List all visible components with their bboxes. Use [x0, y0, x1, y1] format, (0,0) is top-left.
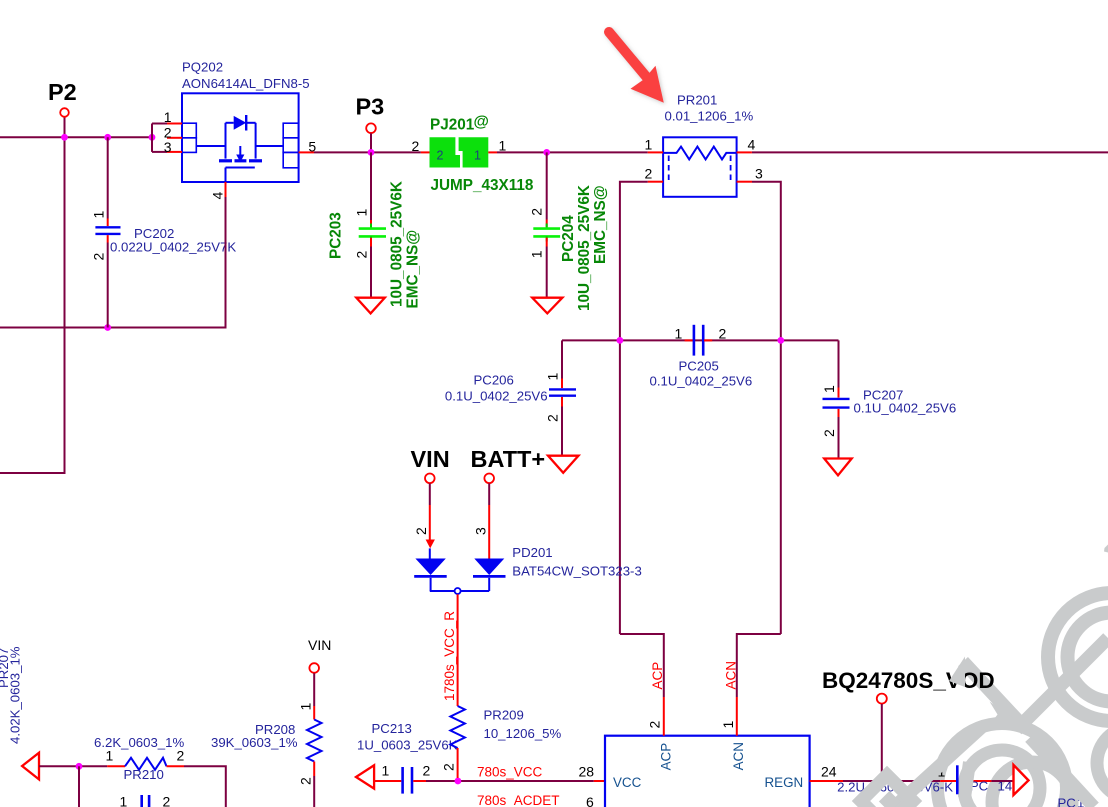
svg-text:1: 1	[164, 109, 172, 125]
wire main right horizontal net y=152.4	[314, 151, 421, 153]
svg-text:2: 2	[298, 777, 314, 785]
junction at (107.7,137.3)	[104, 134, 111, 141]
svg-text:780s_VCC: 780s_VCC	[477, 765, 543, 780]
capacitor PC204	[529, 152, 610, 311]
wm ring outer top	[1048, 593, 1108, 721]
connector P3	[356, 94, 385, 153]
svg-text:2: 2	[529, 208, 545, 216]
pin 3 stub	[737, 181, 752, 183]
watermark logo under-layer (gray)	[938, 545, 1108, 807]
pin 1 stub	[648, 151, 663, 153]
svg-text:3: 3	[473, 527, 489, 535]
svg-text:0.022U_0402_25V7K: 0.022U_0402_25V7K	[110, 240, 236, 255]
svg-text:P3: P3	[356, 94, 385, 120]
node BQ24780S_VOD	[822, 668, 995, 781]
pin 5 stub	[299, 151, 314, 153]
ground below PC207	[824, 459, 852, 476]
svg-text:EMC_NS@: EMC_NS@	[592, 185, 609, 264]
svg-text:2: 2	[645, 165, 653, 181]
ground below PC204	[532, 298, 562, 314]
node BATT+	[471, 446, 546, 483]
ground below PC203	[356, 298, 385, 314]
junction at (619.9,340.4)	[617, 337, 624, 344]
red arrowhead on VIN wire	[426, 540, 435, 549]
junction at (780.8,340.4)	[777, 337, 784, 344]
svg-text:PC206: PC206	[474, 373, 514, 388]
capacitor PC207	[821, 340, 956, 458]
pin 4 stub	[225, 182, 227, 197]
svg-text:2: 2	[413, 527, 429, 535]
svg-text:PJ201: PJ201	[430, 117, 475, 134]
junction at (152,137.3)	[149, 134, 156, 141]
svg-text:2: 2	[545, 414, 561, 422]
wm ring inner bottom	[964, 750, 1040, 807]
pin 4 stub	[737, 151, 752, 153]
off-page connector arrow left of PC213	[356, 765, 374, 788]
body diode	[234, 116, 247, 130]
svg-text:PC204: PC204	[560, 215, 577, 262]
off-page connector arrow bottom-left	[22, 753, 39, 780]
wire pin4 down	[225, 197, 227, 329]
svg-text:2: 2	[177, 748, 185, 764]
wm corner tick	[1104, 545, 1108, 553]
cathode bus	[430, 590, 489, 592]
mosfet internal wiring	[225, 123, 227, 159]
svg-text:ACP: ACP	[650, 662, 665, 690]
svg-text:1: 1	[474, 148, 481, 162]
wm diamond ring small	[861, 775, 913, 807]
svg-text:PC203: PC203	[328, 212, 345, 259]
svg-text:PC: PC	[1058, 796, 1077, 807]
wm extra arc bottom-right	[992, 762, 1072, 807]
wire bottom-left horizontal at y=473	[0, 472, 66, 474]
junction at (546.7,152.4)	[543, 149, 550, 156]
svg-text:REGN: REGN	[765, 775, 804, 790]
svg-text:ACN: ACN	[724, 661, 739, 690]
diode PD201 (dual BAT54CW)	[413, 483, 642, 594]
svg-text:1: 1	[720, 721, 736, 729]
svg-text:1: 1	[382, 763, 390, 779]
capacitor PC214	[837, 764, 1012, 795]
svg-text:1: 1	[821, 385, 837, 393]
svg-text:BQ24780S_VOD: BQ24780S_VOD	[822, 668, 995, 693]
svg-text:PR210: PR210	[124, 767, 164, 782]
svg-text:1U_0603_25V6K: 1U_0603_25V6K	[357, 738, 458, 753]
wm overlay arc patch hiding PC214 right plate	[958, 761, 976, 798]
wire from PR201 pin3 down to sense bus	[752, 182, 781, 342]
wire net 1780s_VCC_R vertical	[457, 594, 459, 706]
capacitor PC206	[445, 340, 576, 455]
svg-text:2: 2	[91, 253, 107, 261]
zigzag element	[125, 758, 167, 770]
wire bottom horizontal at y=327.5	[0, 327, 226, 329]
wm ring outer bottom	[938, 724, 1067, 807]
svg-text:0.01_1206_1%: 0.01_1206_1%	[665, 109, 754, 124]
svg-text:3: 3	[164, 139, 172, 155]
diode A triangle	[415, 559, 445, 576]
svg-text:1: 1	[499, 138, 507, 154]
resistor PR208	[211, 673, 322, 807]
capacitor PC213	[357, 721, 458, 794]
off-page connector arrow right	[1014, 765, 1029, 795]
pin 1 stub	[488, 151, 497, 153]
svg-text:0.1U_0402_25V6: 0.1U_0402_25V6	[854, 401, 957, 416]
svg-text:1: 1	[545, 373, 561, 381]
capacitor PC202	[91, 137, 237, 327]
svg-text:PR201: PR201	[677, 93, 717, 108]
svg-text:0.1U_0402_25V6: 0.1U_0402_25V6	[650, 374, 753, 389]
wm chevron solid head	[989, 702, 1019, 727]
wm diamond solid small	[879, 791, 900, 807]
svg-text:JUMP_43X118: JUMP_43X118	[431, 177, 534, 194]
wm band lower-right	[1030, 738, 1094, 807]
wm ring inner top	[1068, 613, 1108, 702]
svg-text:6: 6	[586, 794, 594, 807]
svg-text:PC205: PC205	[679, 359, 719, 374]
svg-text:PD201: PD201	[512, 545, 552, 560]
svg-text:1: 1	[106, 748, 114, 764]
ground below PC206	[548, 456, 579, 473]
resistor PR201 (current sense)	[645, 93, 764, 197]
junction at (457.9,781)	[455, 778, 462, 785]
svg-text:BAT54CW_SOT323-3: BAT54CW_SOT323-3	[512, 564, 641, 579]
svg-text:2: 2	[437, 148, 444, 162]
pin 28 stub	[594, 780, 605, 782]
junction at (881.8,781)	[878, 778, 885, 785]
zigzag element	[307, 720, 322, 762]
svg-text:3: 3	[755, 165, 763, 181]
svg-text:2: 2	[647, 721, 663, 729]
svg-text:1: 1	[354, 209, 370, 217]
wire ACP jog	[620, 634, 664, 697]
svg-text:1: 1	[675, 326, 683, 342]
pin 2 stub	[167, 765, 185, 767]
svg-text:2: 2	[441, 763, 457, 771]
pin bracket wire	[151, 124, 153, 152]
jumper PJ201	[412, 114, 534, 195]
pin 2 ACP stub	[663, 697, 665, 736]
svg-text:10_1206_5%: 10_1206_5%	[484, 726, 562, 741]
wire net 780s_VCC	[426, 780, 594, 782]
kelvin dashed links	[668, 156, 670, 182]
svg-text:PQ202: PQ202	[182, 60, 223, 75]
wire PR210 to corner down	[184, 766, 226, 807]
capacitor PC203	[328, 152, 422, 308]
svg-text:VIN: VIN	[308, 637, 331, 653]
wire sense bus horizontal y=340.4	[562, 339, 839, 341]
wire REGN net	[843, 780, 940, 782]
node VIN	[411, 446, 450, 483]
svg-text:@: @	[474, 114, 489, 131]
wire junction down	[78, 766, 80, 807]
capacitor PC205	[650, 325, 753, 389]
pin 2 stub	[648, 181, 663, 183]
wire ACN jog	[737, 634, 781, 697]
svg-text:1780s_VCC_R: 1780s_VCC_R	[442, 611, 457, 701]
pin 1 ACN stub	[736, 697, 738, 736]
wm band lower-left	[894, 727, 982, 807]
wire from arrow to PR210	[39, 765, 107, 767]
svg-text:AON6414AL_DFN8-5: AON6414AL_DFN8-5	[182, 76, 310, 91]
svg-text:VCC: VCC	[613, 775, 642, 790]
svg-text:PR209: PR209	[484, 708, 524, 723]
svg-text:2: 2	[412, 138, 420, 154]
wire ACN vertical x=780.8	[780, 340, 782, 634]
svg-text:2: 2	[719, 326, 727, 342]
wire VIN to anode	[429, 483, 431, 505]
svg-text:0.1U_0402_25V6: 0.1U_0402_25V6	[445, 389, 548, 404]
svg-text:10U_0805_25V6K: 10U_0805_25V6K	[389, 181, 406, 307]
svg-text:4: 4	[748, 136, 756, 152]
svg-text:2: 2	[163, 794, 171, 807]
svg-text:1: 1	[529, 250, 545, 258]
svg-text:1: 1	[298, 703, 314, 711]
svg-text:2: 2	[423, 763, 431, 779]
svg-text:BATT+: BATT+	[471, 446, 546, 472]
wire P2 vertical	[64, 117, 66, 473]
wire to off-page arrow	[991, 780, 1013, 782]
svg-text:2: 2	[164, 124, 172, 140]
svg-text:1: 1	[91, 211, 107, 219]
wire from PR201 pin2 down to sense bus	[620, 182, 648, 342]
wire main left horizontal net	[0, 136, 152, 138]
wm right edge arc	[1097, 727, 1108, 799]
svg-text:P2: P2	[48, 79, 77, 105]
svg-text:10U_0805_25V6K: 10U_0805_25V6K	[576, 185, 593, 311]
junction at (107.7,327.5)	[104, 324, 111, 331]
svg-text:2: 2	[821, 429, 837, 437]
wm checkmark slash	[963, 638, 1108, 725]
svg-text:1: 1	[120, 794, 128, 807]
diode B triangle	[474, 559, 504, 576]
svg-text:39K_0603_1%: 39K_0603_1%	[211, 735, 298, 750]
svg-text:28: 28	[579, 764, 595, 780]
resistor PR210	[94, 735, 185, 782]
svg-text:780s_ACDET: 780s_ACDET	[477, 793, 560, 807]
svg-text:4.02K_0603_1%: 4.02K_0603_1%	[8, 646, 23, 744]
svg-text:EMC_NS@: EMC_NS@	[405, 230, 422, 309]
svg-text:24: 24	[821, 764, 837, 780]
junction at (79,766.3)	[76, 763, 83, 770]
pin 1 stub	[107, 765, 125, 767]
svg-text:PC213: PC213	[372, 721, 412, 736]
wire ACP vertical x=619.9	[619, 340, 621, 634]
wm slash end wedge over text	[949, 657, 965, 688]
zigzag element	[450, 706, 465, 748]
junction at (371,152.4)	[368, 149, 375, 156]
IC U (BQ24780S) box	[605, 736, 810, 807]
annotation arrow pointing at PR201	[609, 32, 664, 103]
watermark over-layer (gray)	[861, 657, 1094, 807]
svg-text:ACN: ACN	[731, 742, 746, 770]
svg-text:4: 4	[210, 192, 226, 200]
svg-text:2: 2	[354, 251, 370, 259]
wire BATT+ to anode	[488, 483, 490, 505]
svg-text:VIN: VIN	[411, 446, 450, 472]
junction at (64.5,137.3)	[61, 134, 68, 141]
svg-text:ACP: ACP	[659, 743, 674, 771]
svg-text:1: 1	[645, 136, 653, 152]
resistor PR209	[441, 706, 562, 778]
node VIN small	[308, 637, 331, 673]
capacitor at bottom edge (partial)	[120, 794, 171, 807]
zigzag element	[663, 147, 737, 160]
transistor PQ202	[152, 60, 316, 329]
pin 2 stub	[421, 151, 430, 153]
connector P2	[48, 79, 77, 117]
pin 24 REGN stub	[810, 780, 843, 782]
